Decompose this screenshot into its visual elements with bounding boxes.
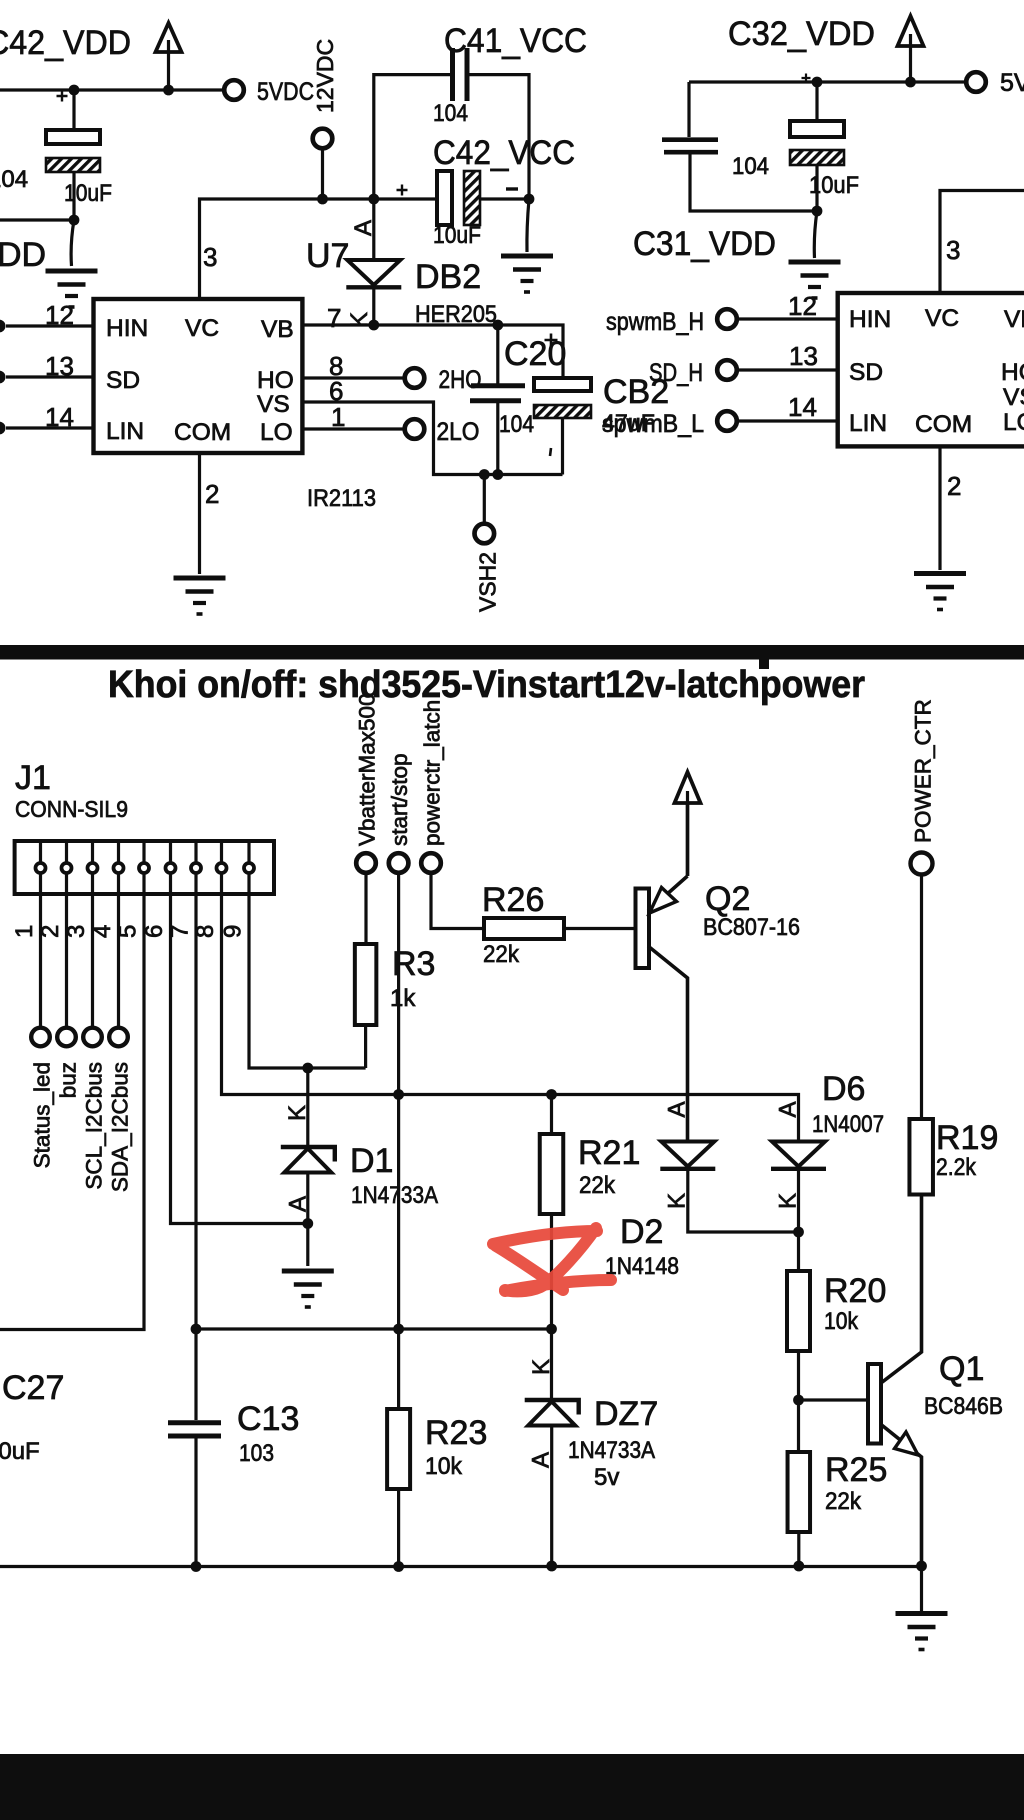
wire J1 pin3 [91,875,94,1027]
wire DZ7 top [550,1329,553,1400]
connector J1 pin 8 [220,843,223,862]
terminal VbatterMax500 [356,853,376,873]
svg-text:3: 3 [203,242,217,272]
wire DB2 cathode [372,289,375,325]
junction R23/bottom rail [393,1561,404,1572]
plus mark right 10uF [802,74,811,83]
capacitor C42_VDD 10uF [46,130,100,144]
resistor R23 [387,1409,410,1489]
svg-text:POWER_CTR: POWER_CTR [911,699,936,843]
svg-text:A: A [775,1101,802,1117]
wire to ground C31 [814,211,817,258]
capacitor 10uF right [790,121,844,137]
svg-text:104: 104 [433,100,468,127]
svg-text:104: 104 [0,166,28,193]
svg-text:12: 12 [788,291,817,321]
resistor R20 [787,1271,810,1351]
svg-text:Q2: Q2 [705,880,750,918]
svg-text:C42_VCC: C42_VCC [433,134,575,172]
wire VC pin3 to +12V rail [200,199,438,301]
wire R3 top [364,874,367,945]
wire spwmB_H [738,317,838,320]
wire SD [6,375,94,378]
svg-text:LO: LO [1003,409,1024,436]
ground under IC1 COM [174,578,226,614]
terminal 2LO [405,419,425,439]
junction R25/bottom rail [793,1561,804,1572]
terminal 12VDC [313,129,333,149]
wire VB to CB2 [302,325,563,378]
svg-text:5v: 5v [594,1464,619,1491]
svg-text:C32_VDD: C32_VDD [728,15,875,53]
svg-text:A: A [664,1101,691,1117]
capacitor C42_VCC 10uF [437,171,452,225]
terminal SCL_I2Cbus [83,1028,102,1047]
svg-text:5VDC: 5VDC [1000,69,1024,97]
junction VDD/cap [69,85,80,96]
svg-text:IR2113: IR2113 [307,485,376,512]
junction DZ7/rail [546,1324,557,1335]
wire R20 bottom [797,1351,800,1400]
wire 10uF right top [815,82,818,121]
svg-text:COM: COM [915,411,972,438]
resistor R3 [355,944,377,1025]
terminal 2HO [405,368,425,388]
wire mid rail [196,1327,552,1330]
svg-text:Q1: Q1 [939,1350,984,1388]
junction C20 bottom [492,469,503,480]
wire R23 bottom [397,1489,400,1567]
wire bottom rail [0,1565,922,1568]
svg-text:103: 103 [239,1440,274,1467]
ground under C42_VDD cap [46,271,98,307]
zener symbol D1 [281,1147,335,1173]
svg-text:C27: C27 [2,1369,64,1407]
wire POWER_CTR to R19 [920,875,923,1120]
junction DB2/VB [368,320,379,331]
junction C20 top [492,320,503,331]
wire powerctr_latch to R26 [431,874,484,929]
wire cap C42_VDD bottom [72,172,75,220]
junction C31/10uF [812,206,823,217]
wire C42_VCC minus [480,197,529,200]
wire J1 pin4 [117,875,120,1027]
svg-text:HO: HO [1001,359,1024,386]
ground under C42_VCC [501,256,553,292]
junction cap/gnd wire [69,215,80,226]
svg-text:VC: VC [185,315,219,342]
ground bottom right [896,1614,948,1650]
svg-text:VSH2: VSH2 [475,552,501,612]
wire C20 top [496,325,499,384]
capacitor C20 104 [470,386,525,401]
wire to bottom ground [920,1566,923,1612]
svg-text:LO: LO [260,419,293,446]
wire DZ7 bottom [550,1426,553,1567]
section divider bar [0,645,1024,660]
power symbol VDD [156,23,182,90]
wire R25 top [797,1400,800,1452]
svg-text:A: A [350,220,377,236]
svg-text:DD: DD [0,236,46,274]
wire HIN [6,324,94,327]
terminal VSH2 [475,524,495,544]
wire spwmB_L [738,419,838,422]
wire C31 bottom [690,154,817,211]
plus mark C42_VCC [397,185,408,196]
wire VS to bottom of caps [302,402,562,475]
terminal pin 12 (left edge) [0,320,6,333]
svg-text:2.2k: 2.2k [936,1154,977,1181]
wire 10uF right bottom [815,165,818,211]
svg-text:DB2: DB2 [415,258,481,296]
diode D2 1N4148 [660,1142,715,1169]
wire to ground right [527,199,529,252]
svg-text:Khoi on/off: shd3525-Vinstart1: Khoi on/off: shd3525-Vinstart12v-latchpo… [108,664,865,706]
junction D1 top [302,1063,313,1074]
junction start-stop/pin8 wire [393,1089,404,1100]
connector J1 pin 1 [39,843,42,862]
connector J1 pin 7 [194,843,197,862]
svg-text:10uF: 10uF [64,180,112,207]
capacitor CB2 47uF [534,378,591,391]
svg-text:start/stop: start/stop [387,753,412,846]
svg-text:14: 14 [45,402,74,432]
wire start/stop down [397,874,400,1330]
junction C13/bottom rail [191,1561,202,1572]
svg-text:22k: 22k [825,1488,862,1515]
wire LIN [6,426,94,429]
svg-text:CONN-SIL9: CONN-SIL9 [15,796,128,822]
resistor R26 [484,918,564,939]
svg-text:10uF: 10uF [0,1438,40,1465]
svg-text:22k: 22k [483,941,520,968]
junction R23/rail [393,1324,404,1335]
power symbol Q2 emitter [675,772,701,876]
wire R20 top [797,1232,800,1271]
terminal POWER_CTR [911,853,933,875]
terminal pin 13 (left edge) [0,371,6,384]
junction R21 top [546,1089,557,1100]
wire R23 top [397,1329,400,1409]
wire C13 bottom [194,1438,197,1567]
ground under D1 [282,1271,334,1307]
wire R25 bottom [797,1532,800,1566]
wire J1 pin6 to D1 anode [171,875,308,1224]
power symbol C32_VDD [898,16,924,82]
svg-text:13: 13 [45,351,74,381]
wire D6 cathode [797,1169,800,1232]
svg-text:LIN: LIN [849,410,887,437]
ground under IC2 COM [914,574,966,610]
svg-text:R23: R23 [425,1414,487,1452]
resistor R19 [909,1119,933,1195]
wire J1 pin9 to R3 [249,875,366,1069]
junction 12VDC [317,194,328,205]
svg-text:1N4733A: 1N4733A [351,1182,438,1209]
svg-text:VS: VS [257,391,290,418]
svg-text:10k: 10k [425,1453,463,1480]
svg-text:D6: D6 [822,1070,865,1108]
svg-text:2: 2 [205,479,219,509]
resistor R25 [788,1452,811,1532]
wire C41 right down [469,75,529,199]
svg-text:R26: R26 [482,881,544,919]
svg-text:R20: R20 [824,1272,886,1310]
svg-text:R21: R21 [578,1134,640,1172]
svg-text:COM: COM [174,419,231,446]
svg-text:HIN: HIN [106,315,148,342]
svg-text:2: 2 [947,471,961,501]
bottom border bar [0,1754,1024,1820]
wire R21 bottom [550,1214,553,1330]
junction 10uF top [812,77,823,88]
wire to Q1 base [799,1398,869,1401]
wire J1 pin2 [65,875,68,1027]
svg-text:9: 9 [220,925,247,938]
svg-text:D2: D2 [620,1213,663,1251]
terminal 5VDC right [966,72,986,92]
wire COM1 to ground [198,453,201,574]
svg-text:14: 14 [788,392,817,422]
svg-text:C13: C13 [237,1400,299,1438]
wire top-right rail [689,80,966,83]
op-amp U? : IC IR2113 #1 body [94,299,303,453]
zener symbol DZ7 [525,1400,579,1426]
wire 12VDC down [321,149,324,199]
resistor R21 [540,1134,564,1214]
wire to VSH2 [483,475,486,523]
minus mark C42_VCC [506,187,518,190]
wire R26 to Q2 base [564,927,636,930]
svg-text:Status_led: Status_led [30,1062,55,1168]
svg-text:R19: R19 [936,1119,998,1157]
svg-text:J1: J1 [15,759,51,797]
wire cap C42_VDD top [72,90,75,130]
svg-text:R25: R25 [825,1451,887,1489]
junction D1 anode [302,1218,313,1229]
svg-text:12: 12 [45,300,74,330]
terminal 5VDC [224,80,244,100]
wire J1 pin7 to C13 [194,875,197,1421]
svg-text:SCL_I2Cbus: SCL_I2Cbus [82,1062,107,1190]
terminal SD_H [717,360,737,380]
connector J1 pin 4 [117,843,120,862]
wire J1 pin5 to C27 [0,875,144,1330]
wire J1 pin1 [39,875,42,1027]
connector J1 pin 3 [91,843,94,862]
svg-text:7: 7 [327,303,341,333]
capacitor C41 104 [453,48,468,101]
junction Q1 emitter/bottom rail [916,1561,927,1572]
transistor Q1 BC846B (NPN) [868,1195,922,1567]
wire D1 anode [306,1173,309,1224]
red annotation X over D2 wire [493,1228,611,1291]
wire HO [302,376,404,379]
svg-text:1N4733A: 1N4733A [568,1437,655,1464]
svg-text:powerctr_latch: powerctr_latch [420,700,445,846]
terminal Status_led [31,1028,50,1047]
junction DB2 anode [368,194,379,205]
wire VC2 pin3 [940,191,1024,294]
diode DB2 HER205 [346,260,401,287]
svg-text:104: 104 [499,411,534,438]
connector J1 pin 9 [247,843,250,862]
svg-text:HIN: HIN [849,306,891,333]
svg-text:K: K [528,1359,555,1375]
svg-text:1N4148: 1N4148 [605,1253,679,1280]
svg-text:K: K [284,1105,311,1121]
svg-text:BC846B: BC846B [924,1393,1003,1420]
ground under right 10uF [789,262,841,298]
svg-text:VB: VB [261,316,294,343]
svg-text:10uF: 10uF [433,222,481,249]
svg-text:VC: VC [925,305,959,332]
terminal buz [57,1028,76,1047]
connector J1 pin 2 [65,843,68,862]
svg-text:10k: 10k [824,1308,859,1335]
svg-text:1: 1 [11,925,38,938]
capacitor C31 104 [662,140,718,153]
wire CB2 bottom [561,418,564,475]
svg-text:buz: buz [56,1062,81,1098]
svg-text:HO: HO [257,367,294,394]
svg-text:SD: SD [849,359,883,386]
connector J1 pin 5 [142,843,145,862]
tick mark [550,448,551,456]
wire D2 cathode [688,1169,799,1232]
terminal spwmB_H [717,309,737,329]
wire J1 pin8 to diodes [222,875,799,1142]
svg-text:1k: 1k [390,985,416,1012]
svg-text:3: 3 [946,235,960,265]
svg-text:spwmB_L: spwmB_L [602,410,704,438]
svg-text:BC807-16: BC807-16 [703,914,800,941]
svg-text:104: 104 [732,153,769,180]
svg-text:5VDC: 5VDC [257,78,314,106]
svg-text:SD: SD [106,367,140,394]
connector J1 body [15,841,274,894]
plus mark C42_VDD cap [57,91,68,102]
wire COM2 to ground [938,446,941,570]
wire DB2 anode [372,199,375,259]
junction VDD/arrow [163,85,174,96]
junction R20/R25/Q1 base [793,1395,804,1406]
capacitor C13 103 [168,1423,221,1436]
junction C41/C42_VCC/gnd [524,194,535,205]
svg-text:DZ7: DZ7 [594,1395,658,1433]
svg-text:VbatterMax500: VbatterMax500 [355,693,380,846]
wire to C41 left [374,75,450,199]
IC IR2113 #2 body [838,293,1024,446]
svg-text:D1: D1 [350,1142,393,1180]
svg-text:C31_VDD: C31_VDD [633,225,776,263]
wire C20 bottom [496,403,499,475]
terminal powerctr_latch [421,853,441,873]
svg-text:13: 13 [789,341,818,371]
wire R3 bottom [364,1025,367,1068]
terminal spwmB_L [717,411,737,431]
junction D2/D6 [793,1227,804,1238]
junction VSH2 [479,469,490,480]
plus mark CB2 [545,334,558,347]
transistor Q2 BC807-16 (PNP) [636,803,688,1142]
svg-text:2HO: 2HO [439,366,482,394]
wire SD_H [738,368,838,371]
wire R21 top [550,1095,553,1135]
svg-text:12VDC: 12VDC [312,39,338,113]
svg-text:VS: VS [1003,384,1024,411]
connector J1 pin 6 [169,843,172,862]
svg-text:SDA_I2Cbus: SDA_I2Cbus [108,1062,133,1192]
wire to ground [71,220,74,266]
junction C13/rail [191,1324,202,1335]
junction DZ7/bottom rail [546,1561,557,1572]
wire D1 to ground [306,1224,309,1267]
wire LO [302,427,404,430]
svg-text:22k: 22k [579,1172,616,1199]
svg-text:1N4007: 1N4007 [812,1111,884,1138]
junction arrow [905,77,916,88]
svg-text:2LO: 2LO [437,418,480,446]
wire VDD rail top-left [0,88,224,91]
svg-text:LIN: LIN [106,418,144,445]
svg-text:U7: U7 [306,237,349,275]
svg-text:VB: VB [1004,306,1024,333]
svg-text:spwmB_H: spwmB_H [606,308,704,336]
diode D6 1N4007 [771,1142,826,1169]
svg-text:SD_H: SD_H [649,359,703,387]
terminal start/stop [389,853,409,873]
diode D1 1N4733A (zener) [306,1068,309,1147]
terminal pin 14 (left edge) [0,422,6,435]
svg-text:C42_VDD: C42_VDD [0,24,131,62]
wire C31 top [687,82,690,137]
terminal SDA_I2Cbus [109,1028,128,1047]
wire to left edge [0,218,74,221]
